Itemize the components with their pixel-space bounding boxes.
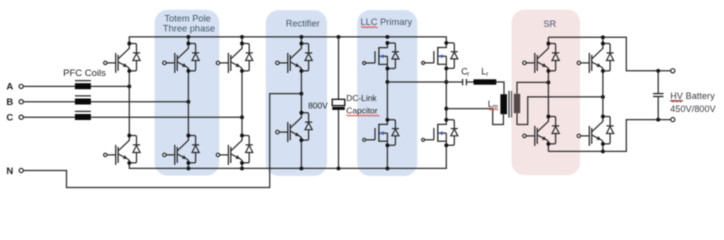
- svg-text:LLC Primary: LLC Primary: [360, 17, 412, 27]
- wire phase B left: [23, 101, 75, 103]
- wire SR legA bottom stub: [547, 144, 549, 152]
- svg-text:Totem Pole: Totem Pole: [164, 13, 211, 23]
- wire leg1 mid: [128, 71, 130, 136]
- wire leg2 mid: [187, 71, 189, 136]
- inductor Lr resonant: [474, 79, 497, 84]
- wire SR bottom rail to battery-: [548, 120, 670, 152]
- wire leg2 top stub: [187, 37, 189, 43]
- node top rail LLC legA: [385, 35, 389, 39]
- IGBT Q10 (SR leg A low-side) with free-wheel diode: [523, 115, 560, 146]
- node battery- cap tap: [656, 118, 660, 122]
- wire legA mid to Cr: [387, 81, 462, 83]
- node N / rectifier midpoint: [299, 92, 303, 96]
- svg-text:DC-Link: DC-Link: [346, 93, 377, 103]
- IGBT Q4 (phase leg 2 low-side) with free-wheel diode: [163, 134, 200, 165]
- spellcheck squiggle under LLC: [361, 26, 378, 29]
- IGBT Q12 (SR leg B low-side) with free-wheel diode: [577, 115, 614, 146]
- label Lm: [488, 99, 498, 110]
- svg-text:N: N: [6, 166, 13, 177]
- svg-text:B: B: [6, 97, 13, 108]
- terminal B: [6, 97, 23, 108]
- node LLC legA mid: [385, 80, 389, 84]
- label Rectifier: [286, 19, 320, 29]
- svg-text:C: C: [6, 113, 13, 124]
- wire phase C left: [23, 116, 75, 118]
- wire cap C2 bottom: [657, 97, 659, 120]
- node phase C / leg3: [240, 115, 244, 119]
- wire secondary top to SR legA: [517, 82, 548, 93]
- SR highlight: [512, 10, 581, 176]
- svg-text:Rectifier: Rectifier: [286, 19, 320, 29]
- totem pole phase-leg highlight: [155, 10, 220, 176]
- spellcheck squiggle under Lm: [488, 108, 498, 111]
- wire DC- bottom rail: [129, 145, 446, 168]
- wire cap C2 top: [657, 71, 659, 93]
- svg-text:r: r: [467, 71, 469, 78]
- label LLC Primary: [360, 17, 412, 27]
- label Totem Pole / Three phase: [163, 13, 215, 33]
- label DC-Link Capcitor: [346, 93, 377, 116]
- wire N to rectifier midpoint: [23, 94, 301, 188]
- wire phase B right: [91, 101, 188, 103]
- MOSFET M2 (LLC leg A low-side) with body diode: [363, 118, 399, 147]
- wire leg3 top stub: [241, 37, 243, 43]
- transformer T1 primary winding: [500, 94, 507, 114]
- IGBT Q6 (phase leg 3 low-side) with free-wheel diode: [216, 134, 253, 165]
- svg-text:Three phase: Three phase: [163, 23, 215, 33]
- svg-text:A: A: [6, 82, 13, 93]
- node phase B / leg2: [186, 100, 190, 104]
- node bottom rail dc-link: [337, 166, 341, 170]
- label 800V: [308, 101, 328, 111]
- label Lr: [481, 67, 488, 78]
- wire leg3 mid: [241, 71, 243, 136]
- wire SR legA mid: [547, 71, 549, 117]
- PFC coil B: [75, 96, 91, 105]
- node SR bottom rail legB: [601, 149, 605, 153]
- label HV Battery: [670, 91, 715, 101]
- wire phase A right: [91, 85, 129, 87]
- capacitor Cr resonant: [463, 79, 467, 85]
- PFC coil C: [75, 111, 91, 120]
- IGBT Q1 (phase leg 1 high-side) with free-wheel diode: [104, 42, 141, 73]
- wire SR top rail to battery+: [548, 37, 670, 71]
- wire dc-link bottom: [338, 110, 340, 168]
- node SR legA mid: [546, 80, 550, 84]
- wire leg2 bottom stub: [187, 163, 189, 169]
- PFC coil A: [75, 81, 91, 90]
- wire Cr to Lr: [466, 81, 473, 83]
- IGBT Q11 (SR leg B high-side) with free-wheel diode: [577, 42, 614, 73]
- rectifier highlight: [266, 10, 327, 176]
- LLC primary highlight: [357, 10, 417, 176]
- label PFC Coils: [63, 68, 106, 79]
- node bottom rail LLC legA: [385, 166, 389, 170]
- label SR: [543, 19, 556, 29]
- wire phase A left: [23, 85, 75, 87]
- wire DC+ top rail: [129, 37, 446, 43]
- wire SR legB top stub: [602, 37, 604, 43]
- wire rectifier leg mid: [300, 71, 302, 113]
- node SR top rail legB: [601, 35, 605, 39]
- spellcheck squiggle under Capcitor: [346, 114, 379, 117]
- IGBT Q8 (rectifier low-side) with free-wheel diode: [276, 111, 313, 142]
- wire secondary bottom to SR legB: [517, 97, 603, 125]
- svg-text:800V: 800V: [308, 101, 328, 111]
- MOSFET M1 (LLC leg A high-side) with body diode: [363, 41, 399, 70]
- wire rectifier leg bottom: [300, 140, 302, 168]
- wire SR legB mid: [602, 71, 604, 117]
- wire LLC legA mid: [386, 69, 388, 120]
- node phase A / leg1: [127, 84, 131, 88]
- transformer T1 core: [509, 91, 512, 118]
- wire LLC legA bottom stub: [386, 145, 388, 168]
- svg-text:PFC Coils: PFC Coils: [63, 68, 106, 79]
- node bottom rail leg3: [240, 166, 244, 170]
- node LLC legB Cr tap: [444, 80, 448, 84]
- MOSFET M3 (LLC leg B high-side) with body diode: [422, 41, 458, 70]
- wire SR legA top stub: [547, 37, 549, 43]
- IGBT Q7 (rectifier high-side) with free-wheel diode: [276, 42, 313, 73]
- node battery+ cap tap: [656, 69, 660, 73]
- label 450V/800V: [670, 104, 715, 114]
- wire Lm branch: [446, 109, 503, 125]
- IGBT Q2 (phase leg 1 low-side) with free-wheel diode: [104, 134, 141, 165]
- terminal battery +: [671, 69, 675, 73]
- terminal battery -: [671, 118, 675, 122]
- wire SR legB bottom stub: [602, 144, 604, 152]
- svg-text:HV Battery: HV Battery: [670, 91, 715, 101]
- node bottom rail rectifier: [299, 166, 303, 170]
- svg-text:Capcitor: Capcitor: [346, 105, 377, 115]
- node top rail dc-link: [337, 35, 341, 39]
- wire phase C right: [91, 116, 242, 118]
- wire LLC legB mid: [445, 68, 447, 119]
- node LLC legB Lm tap: [444, 107, 448, 111]
- terminal C: [6, 113, 23, 124]
- capacitor C2 output: [653, 94, 664, 97]
- svg-text:r: r: [486, 71, 488, 78]
- label Cr: [461, 67, 469, 78]
- node top rail rectifier: [299, 35, 303, 39]
- spellcheck squiggle under HV: [670, 100, 682, 103]
- IGBT Q5 (phase leg 3 high-side) with free-wheel diode: [216, 42, 253, 73]
- node top rail leg3: [240, 35, 244, 39]
- IGBT Q3 (phase leg 2 high-side) with free-wheel diode: [163, 42, 200, 73]
- terminal N: [6, 166, 23, 177]
- terminal A: [6, 82, 23, 93]
- node bottom rail leg2: [186, 166, 190, 170]
- MOSFET M4 (LLC leg B low-side) with body diode: [422, 118, 458, 147]
- wire leg3 bottom stub: [241, 163, 243, 169]
- node SR legB mid: [601, 95, 605, 99]
- svg-text:450V/800V: 450V/800V: [670, 104, 715, 114]
- wire dc-link top: [338, 37, 340, 99]
- capacitor C1 DC-Link 800V: [332, 99, 345, 110]
- transformer T1 secondary winding: [514, 94, 520, 113]
- node top rail leg2: [186, 35, 190, 39]
- wire rectifier leg top stub: [300, 37, 302, 43]
- svg-text:SR: SR: [543, 19, 556, 29]
- IGBT Q9 (SR leg A high-side) with free-wheel diode: [523, 42, 560, 73]
- wire Lr to transformer: [496, 82, 504, 94]
